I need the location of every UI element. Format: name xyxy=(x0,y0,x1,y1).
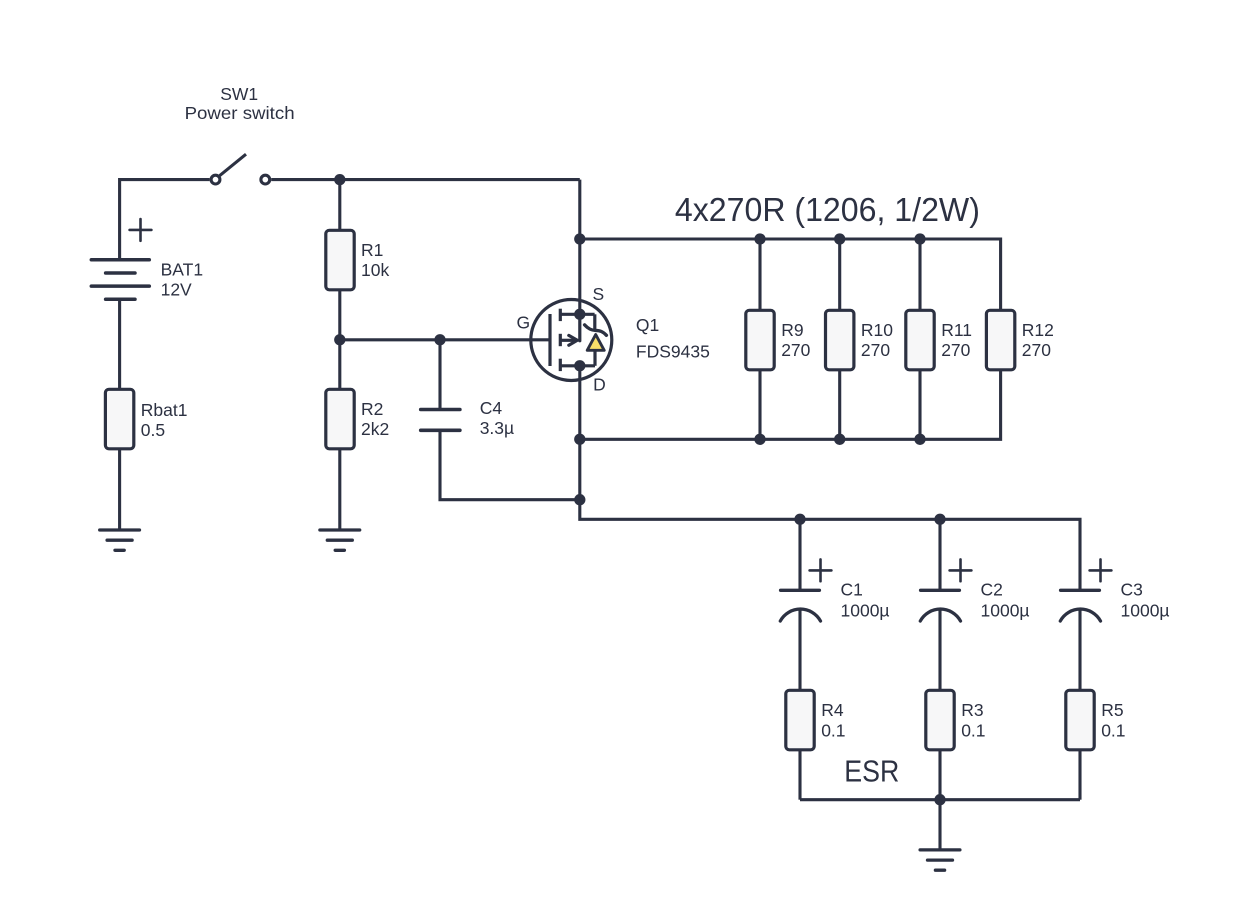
wire C4 top xyxy=(438,340,441,408)
label Rbat1 0.5 xyxy=(141,400,188,440)
node C1 top xyxy=(794,514,805,525)
label R3 0.1 xyxy=(961,700,985,740)
resistor R4 xyxy=(786,690,814,750)
svg-text:FDS9435: FDS9435 xyxy=(636,342,710,362)
svg-text:C4: C4 xyxy=(480,398,503,418)
arrow xyxy=(560,339,574,342)
battery BAT1 xyxy=(91,219,151,299)
label R4 0.1 xyxy=(821,700,845,740)
wire top resistor rail xyxy=(580,239,1001,311)
wire ground stem xyxy=(938,800,941,849)
svg-text:R4: R4 xyxy=(821,700,844,720)
wire C1 to R4 xyxy=(798,609,801,691)
source connector xyxy=(560,313,594,316)
label R10 270 xyxy=(861,320,893,360)
svg-text:G: G xyxy=(516,312,530,332)
svg-text:R2: R2 xyxy=(361,399,383,419)
svg-text:Rbat1: Rbat1 xyxy=(141,400,188,420)
internal dots xyxy=(574,309,585,320)
svg-text:1000µ: 1000µ xyxy=(1121,601,1170,621)
wire R11 bottom xyxy=(918,369,921,439)
svg-text:10k: 10k xyxy=(361,260,389,280)
resistor R5 xyxy=(1066,690,1094,750)
wire R5 bottom xyxy=(1078,749,1081,800)
ground (battery) xyxy=(100,530,140,550)
wire R1 top xyxy=(338,180,341,231)
label BAT1 12V xyxy=(161,260,203,300)
resistor Rbat1 xyxy=(105,389,133,449)
wire R1 bottom xyxy=(338,289,341,340)
wire R4 bottom xyxy=(798,749,801,800)
node C2 top xyxy=(934,514,945,525)
node R9 bottom xyxy=(754,434,765,445)
wire R9 bottom xyxy=(758,369,761,439)
channel stubs xyxy=(559,309,562,321)
label Q1 FDS9435 xyxy=(636,315,710,362)
svg-text:270: 270 xyxy=(781,340,810,360)
ground (main) xyxy=(920,850,960,870)
ground (R2) xyxy=(320,530,360,550)
drain connector xyxy=(560,364,595,367)
wire C4 return xyxy=(440,430,580,499)
squiggle cathode xyxy=(585,325,607,335)
node R10 bottom xyxy=(834,434,845,445)
svg-text:S: S xyxy=(593,284,605,304)
svg-text:270: 270 xyxy=(1022,340,1051,360)
wire C2 to R3 xyxy=(938,609,941,691)
capacitor C1 xyxy=(780,559,831,621)
svg-text:1000µ: 1000µ xyxy=(841,601,890,621)
svg-text:Q1: Q1 xyxy=(636,315,659,335)
resistor R1 xyxy=(326,230,354,289)
label R2 2k2 xyxy=(361,399,389,439)
wire battery to Rbat1 xyxy=(118,299,121,390)
switch SW1 xyxy=(211,154,270,184)
svg-text:0.1: 0.1 xyxy=(1101,721,1125,741)
wire C3 to R5 xyxy=(1078,609,1081,691)
resistor R10 xyxy=(826,310,854,370)
resistor R12 xyxy=(986,310,1014,370)
resistor R9 xyxy=(746,310,774,370)
wire drain down xyxy=(580,366,1080,591)
node rail drain xyxy=(574,434,585,445)
wire R11 top xyxy=(918,239,921,311)
wire C2 top xyxy=(938,519,941,590)
svg-text:270: 270 xyxy=(861,340,890,360)
node R9 top xyxy=(754,233,765,244)
resistor R11 xyxy=(906,310,934,370)
wire Rbat1 to ground xyxy=(118,448,121,528)
svg-text:R11: R11 xyxy=(941,320,972,340)
gate bar xyxy=(548,314,551,366)
svg-text:R12: R12 xyxy=(1022,320,1054,340)
wire R9 top xyxy=(758,239,761,311)
svg-text:C3: C3 xyxy=(1121,580,1143,600)
node R10 top xyxy=(834,233,845,244)
label C3 1000u xyxy=(1121,580,1170,621)
svg-text:Power switch: Power switch xyxy=(185,103,295,123)
svg-text:R5: R5 xyxy=(1101,700,1123,720)
svg-text:1000µ: 1000µ xyxy=(981,601,1030,621)
svg-text:R1: R1 xyxy=(361,240,383,260)
svg-text:SW1: SW1 xyxy=(220,84,258,104)
label R5 0.1 xyxy=(1101,700,1125,740)
body diode branch xyxy=(593,314,596,330)
svg-text:R10: R10 xyxy=(861,320,893,340)
node junction source rail xyxy=(574,233,585,244)
svg-text:0.1: 0.1 xyxy=(821,721,845,741)
wire C1 top xyxy=(798,519,801,590)
svg-text:C1: C1 xyxy=(841,580,863,600)
svg-text:0.1: 0.1 xyxy=(961,721,985,741)
wire R3 bottom xyxy=(938,749,941,800)
node junction C4 xyxy=(434,334,445,345)
wire R2 to ground xyxy=(338,448,341,528)
svg-text:D: D xyxy=(593,375,606,395)
node R11 top xyxy=(914,233,925,244)
wire R2 top xyxy=(338,340,341,390)
wire gate xyxy=(340,338,550,341)
resistor R2 xyxy=(326,389,354,449)
inner source stem xyxy=(578,314,581,341)
wire ESR bottom rail xyxy=(800,798,1080,801)
diode triangle xyxy=(587,335,604,351)
label SW1 Power switch xyxy=(185,84,295,123)
label R1 10k xyxy=(361,240,389,280)
svg-text:ESR: ESR xyxy=(844,754,899,789)
svg-text:R9: R9 xyxy=(781,320,803,340)
label R11 270 xyxy=(941,320,972,360)
wire bottom resistor rail xyxy=(580,369,1001,439)
svg-text:4x270R (1206, 1/2W): 4x270R (1206, 1/2W) xyxy=(675,191,980,228)
wire source from top xyxy=(578,180,581,315)
svg-text:0.5: 0.5 xyxy=(141,420,165,440)
label C1 1000u xyxy=(841,580,890,621)
label C2 1000u xyxy=(981,580,1030,621)
capacitor C4 xyxy=(421,410,460,431)
resistor R3 xyxy=(926,690,954,750)
label C4 3.3u xyxy=(480,398,514,438)
capacitor C2 xyxy=(920,559,971,621)
label R9 270 xyxy=(781,320,810,360)
label R12 270 xyxy=(1022,320,1054,360)
op-amp: none; transistor Q1 MOSFET xyxy=(531,300,612,381)
node C4 return xyxy=(574,494,585,505)
svg-text:BAT1: BAT1 xyxy=(161,260,203,280)
node junction gate xyxy=(334,334,345,345)
svg-text:12V: 12V xyxy=(161,280,192,300)
capacitor C3 xyxy=(1060,559,1111,621)
svg-text:C2: C2 xyxy=(981,580,1003,600)
svg-text:R3: R3 xyxy=(961,700,983,720)
node junction top R1 xyxy=(334,174,345,185)
wire R10 bottom xyxy=(838,369,841,439)
wire R10 top xyxy=(838,239,841,311)
svg-text:270: 270 xyxy=(941,340,970,360)
svg-text:2k2: 2k2 xyxy=(361,419,389,439)
node ground junction xyxy=(934,794,945,805)
node R11 bottom xyxy=(914,434,925,445)
svg-text:3.3µ: 3.3µ xyxy=(480,418,514,438)
wire battery top to switch xyxy=(120,180,210,261)
wire switch to MOSFET source column xyxy=(271,178,580,181)
